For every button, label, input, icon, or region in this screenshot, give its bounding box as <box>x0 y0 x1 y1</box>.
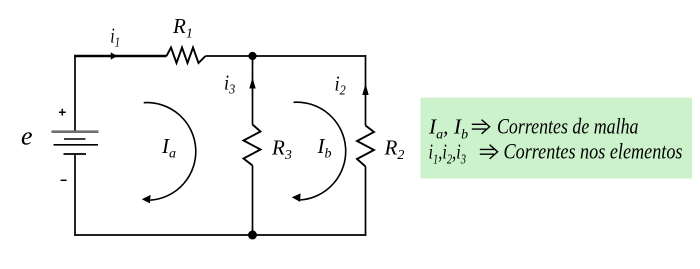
svg-text:R2: R2 <box>384 136 405 164</box>
svg-text:e: e <box>21 122 33 151</box>
label + (battery positive) <box>59 109 66 116</box>
mesh current arrow Ia (arc) <box>144 103 196 201</box>
wire: middle branch lower (R3 to bottom junction) <box>252 166 254 236</box>
wire: top bold segment from corner to R1 <box>74 55 166 58</box>
node: top junction <box>248 52 256 60</box>
wire: left vertical lower (battery bottom to bottom-left corner) <box>74 154 76 236</box>
annotation box (green) <box>421 98 693 179</box>
annotation line 1: double arrow symbol <box>472 120 490 134</box>
voltage source e (battery) : plate 3 long <box>54 144 99 146</box>
svg-text:R3: R3 <box>271 136 292 164</box>
current arrow i1 <box>111 52 118 59</box>
svg-text:Ib: Ib <box>317 134 332 162</box>
label - (battery negative) <box>61 179 67 181</box>
mesh current arrow Ia (arrowhead) <box>142 195 151 204</box>
wire: left vertical (top-left corner down to battery top plate) <box>74 55 76 132</box>
resistor R1 <box>167 48 206 64</box>
svg-text:i3: i3 <box>224 71 235 98</box>
wire: right vertical lower (R2 to bottom-right corner) <box>365 167 367 236</box>
resistor R3 <box>244 125 261 166</box>
voltage source e (battery) : plate 1 long gray <box>52 130 99 133</box>
wire: top right segment from R1 to right corner <box>206 55 367 57</box>
resistor R2 <box>357 126 374 167</box>
node: bottom junction <box>248 231 257 240</box>
svg-text:R1: R1 <box>172 14 193 42</box>
mesh current arrow Ib (arc) <box>294 102 346 200</box>
wire: bottom (bottom-left corner to bottom-right corner) <box>74 234 366 236</box>
svg-text:i1: i1 <box>110 24 120 51</box>
svg-text:Correntes de malha: Correntes de malha <box>497 114 639 139</box>
wire: middle branch upper (junction to R3) <box>252 56 254 125</box>
svg-text:Ia: Ia <box>161 134 176 162</box>
current arrow i2 <box>362 84 368 96</box>
wire: right vertical upper (top corner to R2) <box>365 55 367 125</box>
svg-text:Correntes nos elementos: Correntes nos elementos <box>504 138 683 163</box>
current arrow i3 <box>249 78 255 89</box>
mesh current arrow Ib (arrowhead) <box>292 193 301 202</box>
voltage source e (battery) : plate 2 short <box>64 138 86 140</box>
svg-text:i2: i2 <box>335 72 346 99</box>
annotation line 2: double arrow symbol <box>480 145 498 159</box>
voltage source e (battery) : plate 4 short <box>64 153 87 155</box>
